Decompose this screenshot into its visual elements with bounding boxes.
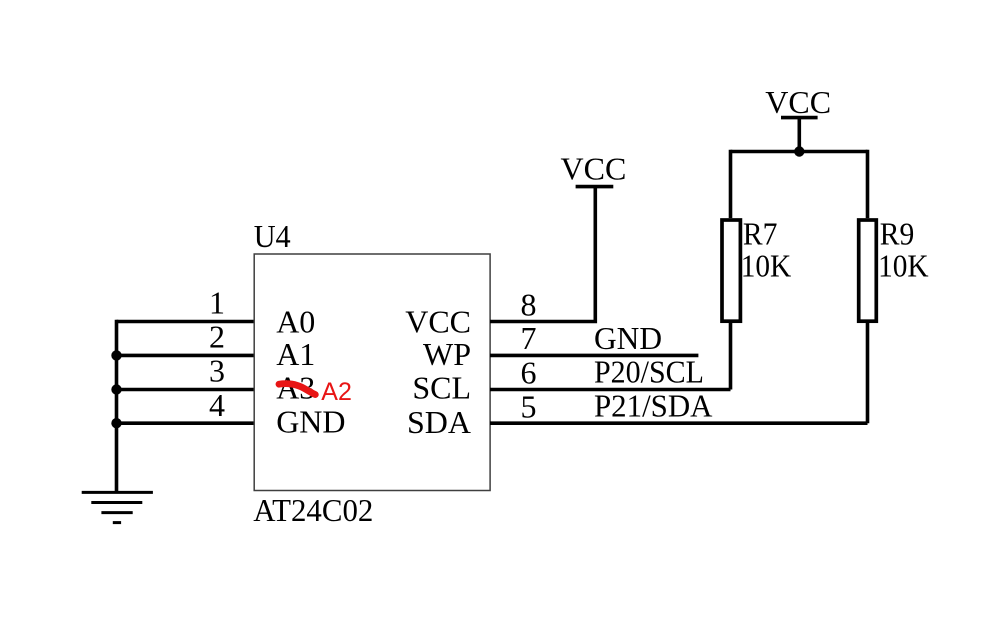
wire pin 7 (GND net) (490, 354, 698, 358)
svg-text:4: 4 (209, 387, 225, 423)
svg-text:8: 8 (521, 286, 537, 322)
wire pin 6 to R7 (490, 388, 731, 392)
junction dot VCC rail (794, 146, 804, 156)
svg-text:P20/SCL: P20/SCL (594, 353, 704, 389)
svg-text:GND: GND (594, 320, 662, 356)
svg-text:A2: A2 (321, 378, 352, 406)
svg-text:R7: R7 (743, 216, 778, 252)
svg-text:10K: 10K (878, 247, 929, 283)
junction dot pin2/bus (111, 350, 121, 360)
svg-text:6: 6 (521, 354, 537, 390)
svg-text:3: 3 (209, 353, 225, 389)
svg-text:A0: A0 (276, 304, 315, 340)
wire VCC rail top horizontal (731, 150, 868, 154)
wire pin 8 to VCC stem (490, 187, 595, 322)
wire R9 bottom to SDA line (866, 323, 870, 423)
svg-text:1: 1 (209, 285, 225, 321)
wire VCC rail to R7 top (729, 150, 733, 218)
svg-text:5: 5 (521, 389, 537, 425)
svg-text:P21/SDA: P21/SDA (594, 387, 713, 423)
svg-text:VCC: VCC (561, 151, 627, 187)
svg-text:AT24C02: AT24C02 (253, 492, 373, 528)
ground symbol (82, 492, 153, 522)
svg-text:A1: A1 (276, 336, 315, 372)
wire pin 3 to bus (117, 388, 254, 392)
wire pin 2 to bus (117, 354, 254, 358)
svg-text:GND: GND (276, 404, 345, 440)
svg-text:SDA: SDA (407, 404, 471, 440)
svg-text:7: 7 (521, 320, 537, 356)
svg-text:VCC: VCC (765, 84, 831, 120)
svg-text:VCC: VCC (405, 304, 471, 340)
svg-text:10K: 10K (741, 247, 792, 283)
red strikethrough scribble on A3 (279, 384, 315, 395)
junction dot pin3/bus (111, 384, 121, 394)
svg-text:WP: WP (423, 336, 471, 372)
wire pin 5 to R9 (490, 421, 868, 425)
wire pin 1 to left bus (117, 320, 254, 324)
resistor R7 body (722, 220, 740, 321)
svg-text:U4: U4 (254, 218, 291, 254)
wire left ground bus vertical (115, 320, 119, 493)
resistor R9 body (859, 220, 877, 321)
VCC power stem (pull-ups) (797, 118, 801, 152)
VCC power bar (pin 8) (576, 185, 614, 189)
svg-text:2: 2 (209, 318, 225, 354)
VCC power bar (pull-ups) (781, 116, 818, 120)
wire VCC rail to R9 top (866, 150, 870, 218)
junction dot pin4/bus (111, 418, 121, 428)
wire R7 bottom to SCL line (729, 323, 733, 390)
svg-text:R9: R9 (880, 216, 915, 252)
IC U4 body box (254, 254, 490, 491)
wire pin 4 to bus (117, 421, 254, 425)
svg-text:SCL: SCL (412, 369, 471, 405)
